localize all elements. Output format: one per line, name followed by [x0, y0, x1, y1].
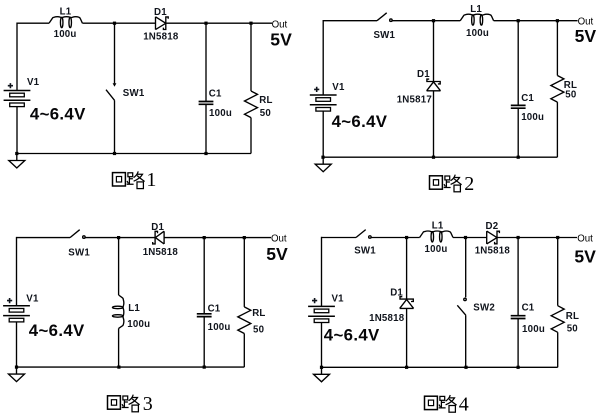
- node C1 top junction: [204, 22, 207, 25]
- wire c2 RL upper lead: [556, 21, 558, 76]
- resistor RL 50 (circuit3): [238, 307, 251, 334]
- text labels circuit 2: [314, 4, 596, 195]
- wire c1 SW1 lower lead: [114, 100, 116, 153]
- svg-text:5V: 5V: [270, 30, 292, 50]
- svg-text:L1: L1: [432, 221, 444, 232]
- wire c4 RL upper lead: [557, 238, 559, 306]
- text labels circuit 4: [312, 221, 596, 416]
- svg-text:50: 50: [253, 324, 264, 335]
- wire c2 SW1 to L1: [392, 20, 460, 22]
- svg-text:100u: 100u: [208, 322, 231, 333]
- switch SW2 contact circle (circuit4): [464, 298, 467, 301]
- node c3 C1 bottom junction: [203, 366, 206, 369]
- ground (circuit2): [315, 157, 331, 172]
- resistor RL 50 (circuit1): [245, 91, 258, 118]
- wire c1 C1 lower lead: [205, 104, 207, 153]
- wire c1 RL upper lead: [250, 23, 252, 91]
- wire c2 D1 upper lead: [433, 21, 435, 82]
- wire c2 L1 to output: [494, 20, 578, 22]
- svg-text:SW1: SW1: [123, 88, 145, 99]
- wire c3 L1 lower lead: [118, 328, 120, 367]
- wire c1 top rail L1 to D1: [82, 22, 155, 24]
- node D1 top junction (c4): [405, 236, 408, 239]
- wire c1 C1 upper lead: [205, 23, 207, 101]
- diode D1 1N5818 (circuit3, pointing left): [153, 231, 164, 244]
- wire c2 top rail to SW1: [323, 20, 377, 22]
- node RL top junction (c3): [243, 236, 246, 239]
- svg-text:C1: C1: [521, 93, 534, 104]
- wire c4 top rail to SW1: [322, 237, 357, 239]
- svg-text:50: 50: [565, 90, 576, 101]
- capacitor C1 100u (circuit2): [511, 105, 526, 108]
- node c4 C1 bottom junction: [517, 366, 520, 369]
- node c4 SW2 bottom junction: [464, 366, 467, 369]
- wire c3 RL lower lead: [243, 334, 245, 368]
- switch SW1 blade (circuit1): [106, 90, 115, 101]
- wire c1 top rail D1 to output: [166, 22, 272, 24]
- svg-text:100u: 100u: [209, 108, 232, 119]
- capacitor C1 100u (circuit3): [197, 314, 212, 317]
- text labels circuit 3: [7, 222, 288, 415]
- caption 回路 3 (c3): [108, 393, 153, 415]
- resistor RL 50 (circuit2): [551, 76, 564, 103]
- wire c4 C1 upper lead: [517, 238, 519, 316]
- wire c3 SW1 to D1: [85, 237, 155, 239]
- svg-text:2: 2: [464, 173, 474, 195]
- svg-text:C1: C1: [522, 303, 535, 314]
- svg-text:100u: 100u: [54, 29, 77, 40]
- svg-text:V1: V1: [332, 293, 345, 304]
- wire c3 C1 upper lead: [203, 238, 205, 314]
- node SW1 top junction: [113, 22, 116, 25]
- svg-text:1: 1: [146, 169, 156, 191]
- switch SW1 (circuit4): [356, 230, 371, 239]
- caption 回路 1 (c1): [113, 169, 157, 191]
- svg-text:D2: D2: [486, 221, 499, 232]
- node c4 D1 bottom junction: [405, 366, 408, 369]
- node c2 ground junction: [321, 156, 324, 159]
- node SW2 top junction (c4): [464, 236, 467, 239]
- svg-text:RL: RL: [566, 311, 579, 322]
- wire c4 SW1 to L1: [371, 237, 419, 239]
- svg-text:C1: C1: [208, 303, 221, 314]
- node c1 SW1 bottom junction: [113, 152, 116, 155]
- wire c4 battery to bottom rail: [321, 322, 323, 367]
- node L1 top junction (c3): [117, 236, 120, 239]
- svg-text:5V: 5V: [575, 26, 597, 46]
- wire c3 L1 upper lead: [118, 238, 120, 295]
- inductor L1 (circuit4): [420, 231, 453, 242]
- diode D1 1N5818 (circuit1): [156, 17, 169, 30]
- svg-text:L1: L1: [470, 4, 482, 15]
- svg-text:5V: 5V: [266, 244, 288, 264]
- svg-text:1N5818: 1N5818: [369, 313, 405, 324]
- node D1 top junction (c2): [432, 19, 435, 22]
- battery V1 (circuit1): [4, 91, 31, 107]
- wire c3 battery to bottom rail: [16, 322, 18, 368]
- svg-text:100u: 100u: [466, 28, 489, 39]
- wire c4 bottom rail: [322, 366, 558, 368]
- wire c1 top rail segment battery to L1: [17, 22, 49, 24]
- wire c1 left rail: [16, 23, 18, 91]
- wire c2 D1 lower lead: [433, 91, 435, 157]
- svg-text:100u: 100u: [521, 112, 544, 123]
- wire c2 C1 upper lead: [517, 21, 519, 106]
- inductor L1 (circuit3, vertical): [112, 295, 123, 328]
- caption 回路 2 (c2): [430, 173, 475, 195]
- node C1 top junction (c4): [517, 236, 520, 239]
- svg-text:1N5818: 1N5818: [475, 245, 511, 256]
- resistor RL 50 (circuit4): [551, 306, 564, 333]
- caption 回路 4 (c4): [425, 394, 469, 416]
- svg-text:4~6.4V: 4~6.4V: [332, 112, 388, 131]
- svg-text:L1: L1: [128, 303, 140, 314]
- switch SW1 (circuit2): [377, 13, 392, 22]
- wire c4 SW2 upper lead: [465, 238, 467, 298]
- svg-text:SW1: SW1: [68, 248, 90, 259]
- battery V1 (circuit2): [310, 95, 337, 111]
- svg-text:1N5818: 1N5818: [143, 32, 179, 43]
- svg-text:1N5818: 1N5818: [143, 247, 179, 258]
- svg-text:L1: L1: [60, 7, 72, 18]
- wire c4 RL lower lead: [557, 332, 559, 367]
- wire c4 SW2 lower lead: [465, 315, 467, 367]
- wire c1 RL lower lead: [250, 118, 252, 154]
- plus sign of V1 (c4): [312, 298, 317, 303]
- wire c4 D1 upper lead: [406, 238, 408, 300]
- svg-text:SW1: SW1: [374, 30, 396, 41]
- node C1 top junction (c3): [203, 236, 206, 239]
- node c1 ground junction: [15, 152, 18, 155]
- ground (circuit4): [314, 367, 330, 382]
- switch SW1 contact arrow (circuit1): [113, 83, 117, 87]
- node c2 C1 bottom junction: [517, 156, 520, 159]
- svg-text:50: 50: [260, 108, 271, 119]
- svg-text:5V: 5V: [574, 247, 596, 267]
- svg-text:1N5817: 1N5817: [397, 95, 432, 106]
- node c2 D1 bottom junction: [432, 156, 435, 159]
- battery V1 (circuit4): [308, 306, 335, 322]
- wire c3 top rail to SW1: [17, 237, 71, 239]
- text labels circuit 1: [8, 7, 292, 192]
- capacitor C1 100u (circuit1): [199, 102, 214, 105]
- ground (circuit1): [9, 154, 25, 169]
- battery V1 (circuit3): [3, 306, 30, 322]
- wire c4 left rail: [321, 237, 323, 307]
- wire c3 RL upper lead: [243, 238, 245, 307]
- svg-text:3: 3: [143, 393, 153, 415]
- diode D1 1N5818 (circuit4): [400, 297, 414, 309]
- inductor L1 (circuit1): [49, 17, 82, 28]
- wire c4 D1 lower lead: [406, 308, 408, 367]
- wire c2 bottom rail: [323, 156, 557, 158]
- wire c2 RL lower lead: [556, 102, 558, 157]
- svg-text:V1: V1: [26, 293, 39, 304]
- wire c2 C1 lower lead: [517, 108, 519, 157]
- node c3 ground junction: [15, 366, 18, 369]
- node RL top junction / Out: [249, 22, 252, 25]
- wire c3 D1 to output: [164, 237, 271, 239]
- plus sign of V1 (c1): [8, 83, 13, 88]
- wire c3 bottom rail: [17, 366, 245, 368]
- svg-text:4~6.4V: 4~6.4V: [30, 105, 86, 124]
- svg-text:SW1: SW1: [354, 246, 376, 257]
- switch SW1 (circuit3): [70, 230, 85, 239]
- node RL top junction (c2): [556, 19, 559, 22]
- svg-text:4~6.4V: 4~6.4V: [29, 321, 85, 340]
- switch SW2 blade (circuit4): [457, 305, 466, 315]
- svg-text:SW2: SW2: [473, 303, 495, 314]
- svg-text:100u: 100u: [522, 324, 545, 335]
- svg-text:Out: Out: [577, 234, 593, 245]
- svg-text:100u: 100u: [425, 244, 448, 255]
- svg-text:C1: C1: [209, 89, 222, 100]
- plus sign of V1 (c3): [7, 298, 12, 303]
- svg-text:4: 4: [459, 394, 469, 416]
- capacitor C1 100u (circuit4): [511, 316, 526, 319]
- wire c2 left rail: [322, 20, 324, 95]
- svg-text:D1: D1: [154, 7, 167, 18]
- wire c1 bottom rail: [16, 153, 251, 155]
- svg-text:RL: RL: [252, 308, 265, 319]
- wire c4 C1 lower lead: [517, 318, 519, 367]
- node c1 C1 bottom junction: [204, 152, 207, 155]
- svg-text:V1: V1: [27, 77, 40, 88]
- diode D1 1N5817 (circuit2): [427, 79, 441, 91]
- svg-text:D1: D1: [151, 222, 164, 233]
- svg-text:V1: V1: [332, 82, 345, 93]
- wire c4 L1 to D2: [453, 237, 487, 239]
- svg-text:50: 50: [567, 324, 578, 335]
- wire c1 battery to ground rail: [16, 106, 18, 153]
- svg-text:100u: 100u: [127, 319, 150, 330]
- diode D2 1N5818 (circuit4): [487, 231, 500, 244]
- inductor L1 (circuit2): [460, 14, 493, 25]
- node RL top junction (c4): [556, 236, 559, 239]
- node c4 ground junction: [320, 366, 323, 369]
- svg-text:RL: RL: [259, 95, 272, 106]
- node c3 L1 bottom junction: [117, 366, 120, 369]
- wire c1 SW1 upper lead: [114, 23, 116, 83]
- ground (circuit3): [9, 367, 25, 382]
- plus sign of V1 (c2): [314, 87, 319, 92]
- svg-text:4~6.4V: 4~6.4V: [324, 326, 380, 345]
- wire c4 D2 to output: [497, 237, 577, 239]
- node C1 top junction (c2): [517, 19, 520, 22]
- svg-text:D1: D1: [390, 288, 403, 299]
- wire c2 battery to bottom rail: [322, 111, 324, 158]
- wire c3 C1 lower lead: [203, 316, 205, 367]
- wire c3 left rail: [16, 237, 18, 306]
- svg-text:D1: D1: [417, 69, 430, 80]
